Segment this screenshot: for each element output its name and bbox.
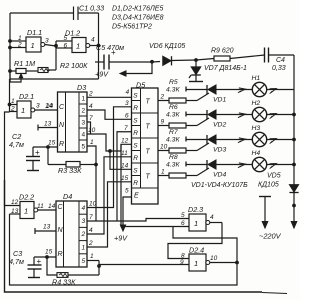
svg-text:11: 11 [121, 150, 128, 157]
svg-text:E: E [134, 193, 139, 200]
svg-text:15: 15 [45, 249, 53, 256]
svg-text:4: 4 [89, 227, 93, 234]
D3 pin R wire [33, 140, 58, 149]
connector arrow [268, 112, 277, 119]
wire lamp to bus [267, 163, 296, 166]
counter D4 [56, 192, 87, 267]
D3 pin C wire [46, 103, 54, 110]
svg-text:Н3: Н3 [252, 125, 261, 132]
svg-text:D2.3: D2.3 [188, 205, 203, 214]
wire input bus [9, 13, 12, 82]
svg-text:D5: D5 [136, 81, 146, 90]
svg-text:R: R [58, 251, 63, 258]
connector arrow [268, 137, 277, 144]
svg-text:2: 2 [10, 106, 15, 113]
diode VD5 [258, 173, 299, 229]
svg-text:R2 100К: R2 100К [60, 61, 88, 70]
svg-text:1: 1 [194, 259, 198, 268]
svg-text:VD1: VD1 [213, 97, 226, 104]
svg-text:D1.2: D1.2 [65, 29, 80, 38]
svg-text:1: 1 [82, 245, 86, 252]
resistor R2 [38, 46, 88, 73]
svg-text:D2.2: D2.2 [19, 193, 34, 202]
svg-text:R: R [133, 105, 138, 112]
svg-text:D1.1: D1.1 [27, 28, 42, 37]
svg-text:3: 3 [36, 103, 40, 110]
IC type table text [112, 6, 164, 31]
resistor R8 [158, 154, 197, 178]
svg-text:Н4: Н4 [252, 150, 261, 157]
svg-text:0,33: 0,33 [272, 65, 286, 72]
svg-text:N: N [58, 227, 64, 234]
connector arrow [237, 137, 245, 143]
svg-text:4: 4 [91, 37, 95, 44]
mains terminal left [259, 197, 271, 229]
label ~220V [259, 232, 282, 241]
wire top to C1 [10, 12, 74, 14]
zener VD7 [189, 59, 247, 82]
D5 enable pin wire +9V [114, 197, 132, 243]
lamp Н4 [252, 150, 267, 172]
gate D2.3 [181, 205, 222, 231]
svg-text:1: 1 [24, 207, 28, 216]
svg-text:3: 3 [125, 100, 129, 107]
svg-text:8: 8 [181, 253, 185, 260]
resistor R9 [196, 48, 265, 62]
thyristor VD2 [186, 110, 252, 129]
svg-text:VD6 КД105: VD6 КД105 [149, 43, 185, 50]
D4 pin R wire [34, 249, 56, 259]
svg-text:T: T [146, 99, 151, 106]
svg-text:1: 1 [90, 253, 94, 260]
gate D2.2 [10, 193, 57, 219]
wire D4 out2 to D5 R4 [87, 182, 132, 247]
thyristor VD1 [186, 85, 252, 104]
wire D1.2 output to D2.1 [10, 79, 99, 112]
D4 pin N stub [35, 224, 56, 235]
resistor R1 trimmer [10, 59, 38, 82]
svg-text:R: R [133, 180, 138, 187]
svg-text:4,7м: 4,7м [9, 257, 24, 266]
svg-text:10: 10 [88, 127, 96, 134]
lamp Н1 [252, 75, 267, 97]
svg-text:D1,D2-К176ЛЕ5: D1,D2-К176ЛЕ5 [112, 6, 163, 13]
svg-text:R3 33К: R3 33К [58, 166, 82, 175]
wire D4 out4 to D5 R3 [87, 157, 132, 234]
svg-text:6: 6 [181, 220, 185, 227]
svg-text:2: 2 [81, 231, 86, 238]
svg-text:13: 13 [11, 208, 19, 215]
wire right bus [293, 55, 295, 185]
svg-text:VD7 Д814Б-1: VD7 Д814Б-1 [204, 65, 247, 72]
svg-text:VD4: VD4 [213, 172, 226, 179]
svg-text:VD2: VD2 [213, 122, 226, 129]
gate D2.4 [181, 246, 238, 272]
lamp Н2 [252, 100, 267, 122]
svg-text:R9 620: R9 620 [211, 48, 234, 55]
svg-text:4: 4 [82, 132, 86, 139]
gate D1.2 [55, 29, 100, 53]
svg-text:1: 1 [21, 106, 25, 115]
capacitor C1 [74, 4, 105, 21]
svg-text:4.3К: 4.3К [166, 137, 180, 144]
svg-text:S: S [133, 168, 138, 175]
svg-text:2: 2 [82, 108, 86, 115]
wire lamp to bus [267, 138, 296, 141]
wire D4 out7 to D2.3 [87, 214, 189, 221]
svg-text:2: 2 [160, 94, 165, 101]
capacitor C5 [95, 43, 152, 70]
svg-text:2: 2 [17, 42, 22, 49]
svg-text:4: 4 [210, 214, 214, 221]
svg-text:R7: R7 [169, 129, 178, 136]
svg-text:2: 2 [88, 91, 93, 98]
svg-text:R1 1М: R1 1М [14, 59, 35, 68]
counter D3 [58, 83, 88, 152]
wire lamp to bus [267, 113, 296, 116]
svg-text:D2.4: D2.4 [189, 246, 204, 255]
resistor R6 [158, 104, 197, 128]
resistor R3 [48, 147, 96, 175]
svg-text:1: 1 [82, 96, 86, 103]
svg-text:13: 13 [44, 121, 52, 128]
wire D3 out5 down [87, 139, 97, 221]
svg-text:+: + [35, 148, 40, 157]
svg-text:5: 5 [82, 258, 86, 265]
wire C1 feedback vertical [98, 13, 100, 79]
svg-text:5: 5 [181, 212, 185, 219]
wire D3 out2 to D5 S2 [87, 103, 132, 119]
svg-text:R8: R8 [169, 154, 178, 161]
capacitor C4 [265, 48, 295, 73]
svg-text:2: 2 [88, 240, 93, 247]
svg-text:3: 3 [82, 218, 86, 225]
capacitor C3 [9, 249, 42, 278]
svg-text:R5: R5 [169, 79, 178, 86]
wire feedback to D2.2 [10, 214, 238, 285]
svg-text:+9V: +9V [95, 70, 109, 79]
quad RS latch D5 [132, 81, 159, 205]
thyristor VD4 [186, 160, 252, 179]
svg-text:14: 14 [46, 103, 54, 110]
svg-text:R: R [59, 141, 64, 148]
diode VD6 [149, 43, 196, 65]
svg-text:1: 1 [76, 42, 80, 51]
svg-text:14: 14 [121, 163, 129, 170]
capacitor C2 [9, 132, 40, 171]
svg-text:4: 4 [82, 205, 86, 212]
svg-text:4: 4 [89, 103, 93, 110]
svg-text:T: T [146, 174, 151, 181]
gate D1.1 [10, 28, 56, 52]
svg-text:6: 6 [64, 43, 68, 50]
svg-text:Н1: Н1 [252, 75, 261, 82]
svg-text:1: 1 [31, 41, 35, 50]
connector arrow [237, 112, 245, 118]
svg-text:9: 9 [180, 259, 184, 266]
D5 right pin labels [160, 94, 168, 176]
svg-text:11: 11 [37, 203, 44, 210]
svg-text:VD5: VD5 [267, 173, 281, 180]
svg-text:S: S [133, 143, 138, 150]
svg-text:5: 5 [64, 35, 68, 42]
svg-text:VD3: VD3 [213, 147, 226, 154]
svg-text:15: 15 [121, 175, 129, 182]
svg-text:VD1-VD4-КУ107Б: VD1-VD4-КУ107Б [191, 182, 248, 189]
wire D4 out10 to D5 R1 [87, 107, 132, 208]
wire D2.4 out cross [173, 227, 237, 263]
svg-text:12: 12 [11, 199, 19, 206]
svg-text:D3,D4-К176ИЕ8: D3,D4-К176ИЕ8 [112, 15, 164, 22]
svg-text:4.3К: 4.3К [166, 162, 180, 169]
connector arrow [237, 162, 245, 168]
svg-text:13: 13 [43, 224, 51, 231]
svg-text:+9V: +9V [114, 234, 128, 243]
svg-text:C1 0,33: C1 0,33 [79, 4, 104, 13]
svg-text:D5-К561ТР2: D5-К561ТР2 [112, 24, 152, 31]
label thyristor types [191, 182, 248, 189]
svg-text:КД105: КД105 [258, 182, 279, 189]
D3 pin N stub [38, 121, 58, 131]
svg-text:C: C [58, 204, 64, 211]
svg-text:D3: D3 [77, 83, 86, 92]
svg-text:6: 6 [125, 113, 129, 120]
svg-text:7: 7 [89, 214, 93, 221]
gate D2.1 [8, 92, 57, 118]
connector arrow [237, 87, 245, 93]
svg-text:4,7м: 4,7м [9, 140, 24, 149]
wire D3 out3 staircase [87, 115, 93, 134]
resistor R5 [158, 79, 197, 103]
svg-text:+: + [111, 48, 116, 57]
wire D3 out4 to D5 S3 [87, 127, 132, 151]
wire D3 out1 to D5 S1 [87, 91, 132, 98]
thyristor VD3 [186, 135, 252, 154]
svg-text:5: 5 [82, 144, 86, 151]
svg-text:1: 1 [161, 169, 165, 176]
resistor R4 [47, 257, 100, 287]
connector arrow [268, 162, 277, 169]
wire D2.1 to D2.2 pin12 [5, 112, 21, 206]
+9V tap arrow [95, 60, 153, 78]
svg-text:4.3К: 4.3К [166, 87, 180, 94]
svg-text:4.3К: 4.3К [166, 112, 180, 119]
D5 left pin labels [121, 89, 130, 195]
svg-text:4: 4 [126, 89, 130, 96]
svg-text:7: 7 [89, 115, 93, 122]
connector arrow [268, 87, 277, 94]
svg-text:3: 3 [45, 38, 49, 45]
svg-text:D2.1: D2.1 [19, 92, 34, 101]
wire D4 out7 to D5 R2 [117, 132, 132, 221]
svg-text:R: R [133, 155, 138, 162]
svg-text:T: T [146, 124, 151, 131]
svg-text:5: 5 [125, 188, 129, 195]
wire D2.3 out cross [168, 223, 222, 259]
svg-text:N: N [59, 122, 65, 129]
svg-text:Н2: Н2 [252, 100, 261, 107]
wire D4 out5 to D2.4 [87, 253, 189, 266]
svg-text:C: C [59, 104, 65, 111]
wire to D2.3 pin6 [121, 144, 189, 226]
svg-text:15: 15 [48, 140, 56, 147]
svg-text:7: 7 [124, 125, 128, 132]
svg-text:R6: R6 [169, 104, 178, 111]
svg-text:10: 10 [210, 255, 218, 262]
svg-text:S: S [133, 93, 138, 100]
lamp Н3 [252, 125, 267, 147]
wire staircase to D5 S4 [109, 150, 132, 170]
resistor R7 [158, 129, 197, 153]
svg-text:1: 1 [90, 139, 94, 146]
svg-text:14: 14 [48, 203, 56, 210]
svg-text:R: R [133, 130, 138, 137]
svg-text:3: 3 [82, 120, 86, 127]
svg-text:T: T [146, 149, 151, 156]
svg-text:10: 10 [160, 144, 168, 151]
svg-text:1: 1 [11, 98, 15, 105]
wire lamp to bus [267, 89, 294, 91]
svg-text:1: 1 [194, 219, 198, 228]
svg-text:C4: C4 [276, 57, 285, 64]
svg-text:12: 12 [121, 138, 129, 145]
border frame [5, 180, 288, 294]
svg-text:D4: D4 [63, 192, 72, 201]
svg-text:9: 9 [161, 119, 165, 126]
svg-text:S: S [133, 118, 138, 125]
svg-text:~220V: ~220V [259, 232, 282, 241]
